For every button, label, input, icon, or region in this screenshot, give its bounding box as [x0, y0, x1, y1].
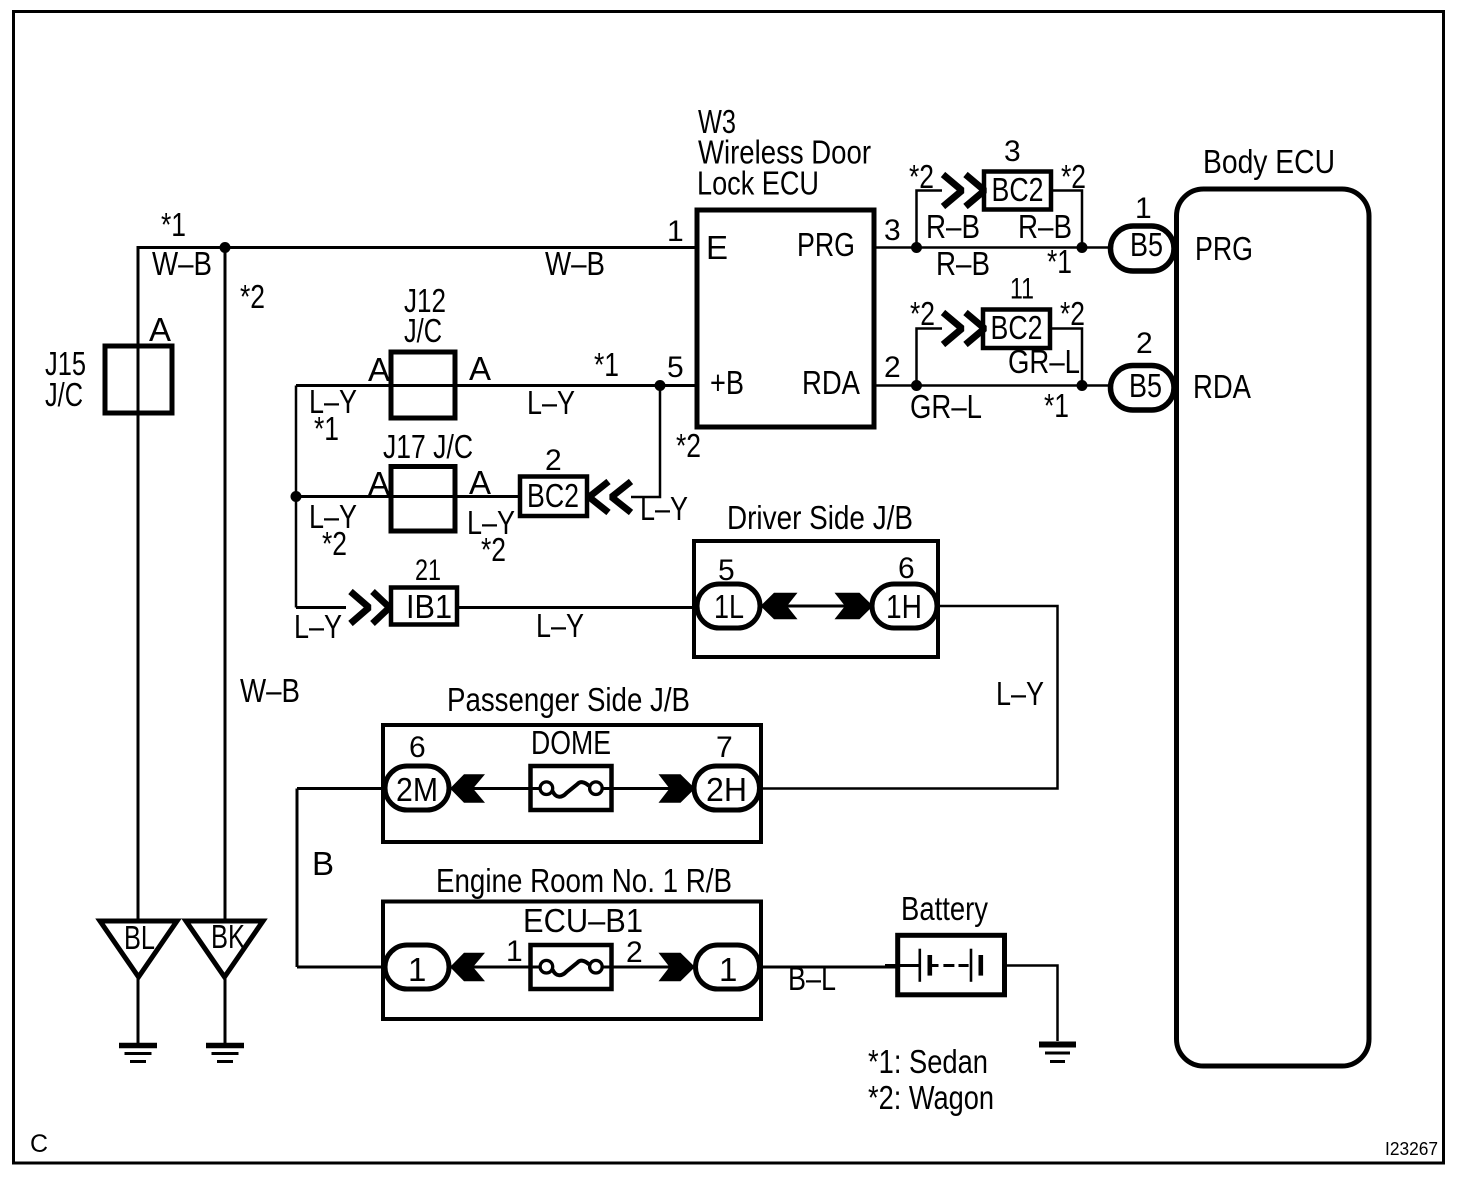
wire BC2-3 branch — [917, 191, 943, 248]
battery cells — [885, 964, 919, 967]
svg-text:IB1: IB1 — [406, 588, 452, 625]
svg-text:L–Y: L–Y — [640, 490, 688, 527]
wire IB1 row — [296, 606, 346, 609]
fuse ECU-B1 box — [531, 945, 612, 989]
svg-text:*2: Wagon: *2: Wagon — [868, 1079, 994, 1116]
connector BC2 (3) box — [984, 172, 1051, 210]
arrow chevrons right BC2-11 — [943, 313, 962, 345]
svg-text:1: 1 — [408, 951, 426, 988]
svg-text:DOME: DOME — [531, 724, 611, 761]
svg-text:*1: *1 — [314, 410, 339, 447]
svg-text:A: A — [368, 465, 390, 502]
svg-text:*1: *1 — [161, 206, 186, 243]
svg-text:*1: *1 — [1047, 243, 1072, 280]
svg-text:E: E — [706, 229, 728, 266]
svg-text:*2: *2 — [1061, 158, 1086, 195]
svg-text:L–Y: L–Y — [294, 608, 342, 645]
svg-text:RDA: RDA — [802, 364, 860, 401]
node junction PRG left — [911, 242, 922, 253]
svg-text:PRG: PRG — [1195, 230, 1253, 267]
svg-text:*2: *2 — [1060, 295, 1085, 332]
connector BC2 (2) box — [520, 477, 587, 517]
svg-text:W–B: W–B — [240, 672, 300, 709]
arrow solid left passenger — [450, 774, 485, 802]
wire vertical 1 to BL ground — [137, 246, 140, 921]
wire +B stub — [660, 384, 697, 387]
svg-text:BC2: BC2 — [991, 309, 1043, 346]
connector oval 1H — [872, 584, 937, 628]
junction box J12 J/C — [391, 352, 455, 418]
svg-text:A: A — [368, 351, 390, 388]
svg-text:ECU–B1: ECU–B1 — [523, 902, 643, 939]
junction box J17 J/C — [391, 467, 455, 532]
arrow chevrons right BC2-3 — [943, 175, 962, 207]
wire B-L to battery — [759, 966, 898, 969]
svg-text:+B: +B — [710, 364, 744, 401]
svg-text:2: 2 — [1136, 327, 1153, 360]
svg-text:*2: *2 — [676, 427, 701, 464]
wire branch pin5 down — [631, 386, 660, 498]
arrow solid right passenger — [659, 774, 696, 802]
wire J17 row — [296, 495, 520, 498]
fuse DOME box — [531, 766, 612, 810]
junction box J15 J/C — [105, 346, 172, 413]
wire B vertical — [296, 789, 299, 968]
wire W-B main horizontal — [138, 246, 697, 249]
node junction RDA right — [1077, 380, 1088, 391]
svg-text:11: 11 — [1010, 273, 1034, 306]
svg-text:J/C: J/C — [404, 312, 442, 349]
svg-text:W–B: W–B — [545, 245, 605, 282]
svg-text:Engine Room No. 1 R/B: Engine Room No. 1 R/B — [436, 862, 732, 899]
svg-text:5: 5 — [718, 554, 735, 587]
ground BK — [186, 921, 263, 977]
svg-text:2M: 2M — [396, 771, 438, 808]
svg-text:2: 2 — [884, 351, 901, 384]
svg-text:Passenger Side J/B: Passenger Side J/B — [447, 681, 690, 718]
connector oval 1 left — [385, 945, 449, 989]
svg-text:6: 6 — [898, 552, 915, 585]
connector oval B5 RDA — [1111, 366, 1175, 411]
wire PRG row — [874, 246, 1112, 249]
connector oval B5 PRG — [1111, 226, 1175, 271]
connector IB1 box — [391, 588, 457, 625]
wire left branch vertical — [295, 386, 298, 608]
passenger side J/B box — [383, 725, 761, 842]
svg-text:*2: *2 — [909, 158, 934, 195]
svg-text:GR–L: GR–L — [1008, 343, 1080, 380]
svg-text:Body ECU: Body ECU — [1203, 143, 1335, 180]
wire vertical 2 to BK ground — [224, 246, 227, 921]
fuse DOME element — [540, 782, 553, 795]
svg-text:B–L: B–L — [788, 960, 836, 997]
wire to engine room — [297, 966, 385, 969]
svg-text:1H: 1H — [886, 588, 922, 625]
svg-text:Lock ECU: Lock ECU — [697, 165, 819, 202]
wire L-Y J12 row — [296, 384, 660, 387]
svg-text:1: 1 — [719, 951, 737, 988]
svg-text:R–B: R–B — [926, 208, 980, 245]
svg-text:*2: *2 — [910, 295, 935, 332]
svg-text:A: A — [469, 464, 491, 501]
fuse ECU-B1 element — [540, 960, 553, 973]
connector BC2 (11) box — [983, 310, 1050, 349]
svg-text:*1: *1 — [594, 346, 619, 383]
svg-text:B: B — [312, 845, 334, 882]
node junction left branch — [291, 491, 302, 502]
svg-text:I23267: I23267 — [1385, 1139, 1438, 1159]
svg-text:L–Y: L–Y — [527, 384, 575, 421]
arrow solid left engine — [450, 953, 485, 981]
svg-text:*1: Sedan: *1: Sedan — [868, 1043, 988, 1080]
ground battery — [1039, 1042, 1076, 1048]
svg-text:2: 2 — [545, 444, 562, 477]
svg-text:*1: *1 — [1044, 387, 1069, 424]
svg-text:R–B: R–B — [1018, 208, 1072, 245]
svg-text:L–Y: L–Y — [996, 675, 1044, 712]
connector oval 2H — [694, 766, 760, 810]
connector oval 1L — [697, 584, 760, 628]
svg-text:L–Y: L–Y — [536, 607, 584, 644]
svg-text:A: A — [469, 350, 491, 387]
svg-text:2: 2 — [626, 936, 643, 969]
svg-text:BC2: BC2 — [527, 477, 579, 514]
svg-text:R–B: R–B — [936, 245, 990, 282]
wire RDA row — [874, 384, 1110, 387]
svg-text:1L: 1L — [714, 588, 744, 625]
svg-text:B5: B5 — [1129, 367, 1162, 404]
node junction at pin5 — [655, 380, 666, 391]
svg-text:C: C — [30, 1130, 48, 1158]
wire BC2-11 branch — [917, 329, 943, 386]
arrow solid right engine — [659, 953, 696, 981]
wire battery to ground — [1004, 966, 1058, 1042]
svg-text:BC2: BC2 — [992, 171, 1044, 208]
svg-text:1: 1 — [506, 935, 523, 968]
arrow chevrons left BC2-2 — [589, 482, 609, 513]
svg-text:1: 1 — [1135, 192, 1152, 225]
node junction W-B — [220, 242, 231, 253]
node junction RDA left — [911, 380, 922, 391]
svg-text:W–B: W–B — [152, 245, 212, 282]
connector oval 1 right — [696, 945, 760, 989]
svg-text:Battery: Battery — [901, 890, 988, 927]
svg-text:*2: *2 — [322, 525, 347, 562]
svg-text:J/C: J/C — [45, 376, 83, 413]
svg-text:PRG: PRG — [797, 226, 855, 263]
svg-text:21: 21 — [415, 554, 441, 587]
wire inside passenger JB — [449, 787, 540, 790]
svg-text:J17 J/C: J17 J/C — [383, 428, 473, 465]
wire 1H to 2H — [761, 606, 1058, 789]
svg-text:2H: 2H — [706, 771, 747, 808]
engine room No.1 R/B box — [383, 902, 761, 1020]
wire IB1 to driver JB — [457, 606, 697, 609]
battery box — [898, 935, 1005, 995]
svg-text:Driver Side J/B: Driver Side J/B — [727, 499, 913, 536]
svg-text:1: 1 — [667, 215, 684, 248]
node junction PRG right — [1077, 242, 1088, 253]
svg-text:BK: BK — [211, 918, 245, 955]
arrow chevrons right IB1 — [351, 592, 370, 624]
connector oval 2M — [385, 766, 449, 810]
svg-text:5: 5 — [667, 351, 684, 384]
driver side J/B box — [694, 541, 938, 657]
svg-text:GR–L: GR–L — [910, 388, 982, 425]
svg-text:7: 7 — [716, 731, 733, 764]
svg-text:*2: *2 — [240, 278, 265, 315]
svg-text:6: 6 — [409, 731, 426, 764]
svg-text:3: 3 — [884, 214, 901, 247]
wire to 2M — [297, 787, 385, 790]
ground BL — [100, 921, 177, 977]
svg-text:B5: B5 — [1130, 226, 1163, 263]
svg-text:3: 3 — [1004, 135, 1021, 168]
arrow solid left driver — [761, 593, 798, 620]
Body ECU box — [1177, 189, 1370, 1066]
ECU W3 box — [697, 210, 874, 427]
svg-text:BL: BL — [124, 919, 155, 956]
svg-text:RDA: RDA — [1193, 368, 1251, 405]
wire inside driver JB — [760, 605, 872, 608]
wire inside engine RB — [449, 966, 540, 969]
svg-text:A: A — [149, 311, 171, 348]
arrow solid right driver — [835, 593, 874, 620]
svg-text:*2: *2 — [481, 531, 506, 568]
